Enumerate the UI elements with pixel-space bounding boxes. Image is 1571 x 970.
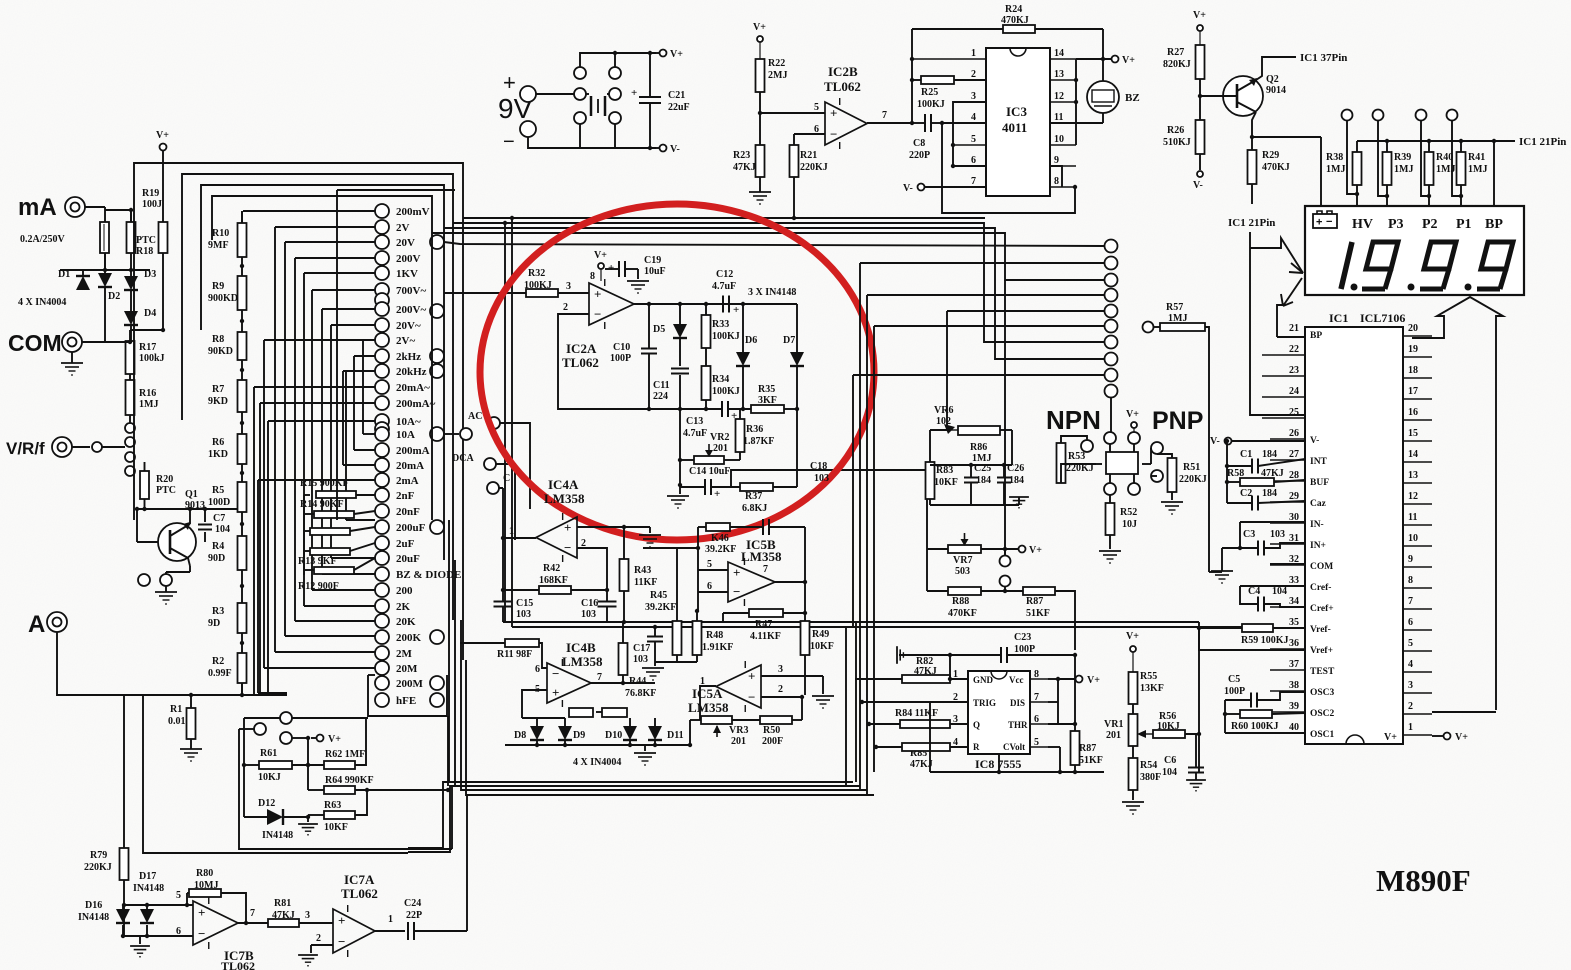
switch contact 2V: [375, 220, 389, 234]
wire bus top nest 1: [134, 163, 463, 660]
svg-text:COM: COM: [8, 330, 62, 356]
wire vertical bundle x860: [859, 263, 861, 790]
wire switch box: [337, 189, 455, 191]
svg-text:100KJ: 100KJ: [712, 331, 740, 342]
display digits 1.9.9.9: [1341, 242, 1352, 289]
svg-text:38: 38: [1289, 680, 1299, 691]
svg-text:C23: C23: [1014, 632, 1031, 643]
svg-text:200F: 200F: [762, 736, 783, 747]
switch contact 10A: [375, 427, 389, 441]
svg-text:1MJ: 1MJ: [1394, 164, 1413, 175]
svg-text:IC2A: IC2A: [566, 341, 597, 356]
junction IC3 pin1: [910, 57, 914, 61]
wire OSC bracket: [1224, 700, 1226, 733]
wire ladder backbone: [241, 211, 243, 223]
selector contact circles left column: [125, 423, 135, 433]
wire Q2 collector to IC1 37Pin: [1256, 57, 1296, 80]
svg-text:1KD: 1KD: [208, 449, 228, 460]
svg-text:AC: AC: [468, 411, 482, 422]
svg-text:V+: V+: [1193, 10, 1206, 21]
svg-text:−: −: [1326, 216, 1332, 228]
switch contact 200mV: [375, 204, 389, 218]
svg-text:5: 5: [707, 559, 712, 570]
svg-text:TL062: TL062: [824, 79, 861, 94]
svg-text:VR3: VR3: [729, 725, 748, 736]
svg-text:C12: C12: [716, 269, 733, 280]
wire range resistor left rail: [304, 494, 310, 496]
probe contact circles: [1342, 110, 1353, 121]
wire bottom rail y695: [66, 694, 287, 696]
svg-text:100J: 100J: [142, 199, 162, 210]
svg-text:OSC3: OSC3: [1310, 688, 1335, 698]
svg-text:R21: R21: [800, 150, 817, 161]
switch contact 20V second column: [430, 235, 444, 249]
svg-text:COM: COM: [1310, 562, 1333, 572]
svg-text:12: 12: [1054, 91, 1064, 102]
switch contact 2uF: [375, 536, 389, 550]
wire probe circle drops: [1347, 120, 1357, 194]
svg-text:IC1 21Pin: IC1 21Pin: [1519, 136, 1566, 148]
svg-text:LM358: LM358: [562, 654, 603, 669]
svg-text:51KF: 51KF: [1026, 608, 1050, 619]
svg-text:V-: V-: [1193, 180, 1203, 191]
svg-text:39.2KF: 39.2KF: [705, 544, 736, 555]
switch contact 2M: [375, 646, 389, 660]
svg-text:200V~: 200V~: [396, 304, 426, 316]
svg-text:D6: D6: [745, 335, 757, 346]
svg-text:OSC1: OSC1: [1310, 730, 1335, 740]
svg-text:1.91KF: 1.91KF: [702, 642, 733, 653]
power stub V+ R62: [317, 735, 324, 742]
svg-text:−: −: [338, 934, 345, 949]
switch contact 20mA: [375, 458, 389, 472]
svg-text:10KF: 10KF: [324, 822, 348, 833]
svg-text:37: 37: [1289, 659, 1299, 670]
switch contact 20nF: [375, 504, 389, 518]
wire bus top nest 2: [182, 174, 453, 620]
IC IC1 body: [1305, 327, 1403, 744]
svg-text:D17: D17: [139, 871, 156, 882]
switch contact 20K: [375, 614, 389, 628]
wire C contact to IC4A: [499, 487, 503, 489]
svg-text:200mV: 200mV: [396, 206, 430, 218]
svg-text:R47: R47: [755, 619, 772, 630]
switch contact 700V~: [375, 283, 389, 297]
wire bus y627 to R59: [512, 626, 1242, 628]
svg-text:IC7A: IC7A: [344, 872, 375, 887]
svg-text:−: −: [198, 926, 205, 941]
svg-text:HV: HV: [1352, 217, 1373, 232]
svg-text:BZ: BZ: [1125, 92, 1140, 104]
svg-text:34: 34: [1289, 596, 1299, 607]
wire diode rails D8-D11: [522, 717, 565, 719]
wire VR6 left rail: [930, 429, 947, 431]
svg-text:CVolt: CVolt: [1003, 742, 1025, 752]
svg-text:6: 6: [971, 155, 976, 166]
switch contact hFE second column: [430, 693, 444, 707]
switch contact 200uF: [375, 520, 389, 534]
svg-text:510KJ: 510KJ: [1163, 137, 1191, 148]
svg-text:IC1: IC1: [1329, 311, 1348, 325]
svg-text:V+: V+: [1029, 545, 1042, 556]
wire bus right y233: [432, 233, 1104, 280]
wire D16 D17 bottom rail: [122, 925, 124, 936]
svg-text:90D: 90D: [208, 553, 225, 564]
svg-text:4 X IN4004: 4 X IN4004: [18, 297, 66, 308]
svg-text:200K: 200K: [396, 632, 422, 644]
svg-text:C2: C2: [1240, 488, 1252, 499]
svg-text:4.11KF: 4.11KF: [750, 631, 781, 642]
svg-text:22P: 22P: [406, 910, 422, 921]
switch contact 200V~ second column: [430, 304, 444, 318]
svg-text:TL062: TL062: [341, 886, 378, 901]
svg-text:9: 9: [1054, 155, 1059, 166]
switch contact 200mA: [375, 443, 389, 457]
svg-text:R2: R2: [212, 656, 224, 667]
contact 10A aux: [460, 428, 472, 440]
svg-text:8: 8: [590, 271, 595, 282]
svg-text:BP: BP: [1485, 217, 1503, 232]
svg-text:184: 184: [976, 475, 991, 486]
svg-text:TL062: TL062: [562, 355, 599, 370]
wire 20V long line: [444, 242, 1104, 246]
svg-text:D9: D9: [573, 730, 585, 741]
svg-text:C7: C7: [213, 513, 225, 524]
IC IC3 4011 body: [986, 48, 1050, 196]
wire IC1 21pin feeder: [1250, 232, 1305, 415]
selector circle b: [254, 723, 266, 735]
wire switch loop x363: [363, 339, 375, 341]
svg-text:IN+: IN+: [1310, 541, 1326, 551]
svg-text:103: 103: [581, 609, 596, 620]
svg-text:D12: D12: [258, 798, 275, 809]
svg-text:76.8KF: 76.8KF: [625, 688, 656, 699]
wire battery top rail: [580, 53, 656, 67]
wire bus right y218: [463, 217, 985, 219]
svg-text:10: 10: [1054, 134, 1064, 145]
svg-text:R51: R51: [1183, 462, 1200, 473]
wire IC4A plus input: [577, 526, 624, 528]
svg-text:40: 40: [1289, 722, 1299, 733]
switch contact 200K second column: [430, 630, 444, 644]
switch contact 200: [375, 583, 389, 597]
svg-text:2: 2: [971, 69, 976, 80]
wire switch loop x331: [331, 324, 375, 326]
ground at IC4A plus: [639, 534, 661, 536]
svg-text:20kHz: 20kHz: [396, 366, 427, 378]
wire switch loop x346: [346, 370, 375, 372]
svg-text:−: −: [552, 666, 559, 681]
junction dots ladder: [240, 264, 244, 268]
svg-text:R41: R41: [1468, 152, 1485, 163]
svg-text:184: 184: [1262, 449, 1277, 460]
switch contact 2kHz second column: [430, 349, 444, 363]
svg-text:200mA: 200mA: [396, 445, 430, 457]
svg-text:C19: C19: [644, 255, 661, 266]
svg-text:11: 11: [1054, 112, 1063, 123]
terminal V/R/f jack: [52, 437, 72, 457]
wire IC3 bottom loop: [942, 123, 1075, 213]
svg-text:R29: R29: [1262, 150, 1279, 161]
svg-text:5: 5: [1408, 638, 1413, 649]
svg-text:200uF: 200uF: [396, 522, 426, 534]
svg-text:V+: V+: [1384, 732, 1397, 743]
svg-text:−: −: [503, 131, 515, 153]
svg-text:V+: V+: [670, 49, 683, 60]
svg-text:16: 16: [1408, 407, 1418, 418]
svg-text:3 X IN4148: 3 X IN4148: [748, 287, 796, 298]
svg-text:Q1: Q1: [185, 489, 198, 500]
svg-text:+: +: [594, 286, 601, 301]
svg-text:R79: R79: [90, 850, 107, 861]
wire R61 box outline: [243, 718, 245, 817]
svg-text:R34: R34: [712, 374, 729, 385]
wire riser x143 to bottom: [143, 695, 408, 853]
svg-text:LM358: LM358: [688, 700, 729, 715]
wire switch loop x295: [295, 257, 375, 259]
svg-text:V+: V+: [594, 250, 607, 261]
svg-text:C24: C24: [404, 898, 421, 909]
svg-text:Vref+: Vref+: [1310, 646, 1333, 656]
wire C17 R45 R48 bottom rail: [655, 661, 697, 663]
svg-text:C16: C16: [581, 598, 598, 609]
svg-text:V+: V+: [1126, 631, 1139, 642]
svg-text:+: +: [552, 685, 559, 700]
svg-text:R3: R3: [212, 606, 224, 617]
svg-text:R57: R57: [1166, 302, 1183, 313]
svg-text:+: +: [714, 488, 720, 500]
svg-text:11KF: 11KF: [634, 577, 657, 588]
svg-text:10A: 10A: [396, 429, 415, 441]
svg-text:1MJ: 1MJ: [1326, 164, 1345, 175]
svg-text:168KF: 168KF: [539, 575, 568, 586]
ground under R51: [1161, 501, 1183, 503]
svg-text:M890F: M890F: [1376, 863, 1471, 898]
svg-text:20V~: 20V~: [396, 320, 421, 332]
svg-text:R43: R43: [634, 565, 651, 576]
svg-text:Cref-: Cref-: [1310, 583, 1331, 593]
wire battery bottom rail: [528, 137, 656, 148]
svg-text:IC4A: IC4A: [548, 477, 579, 492]
svg-text:10KF: 10KF: [810, 641, 834, 652]
switch contact 2V~: [375, 333, 389, 347]
svg-text:hFE: hFE: [396, 695, 416, 707]
switch contact 2K: [375, 599, 389, 613]
svg-text:C21: C21: [668, 90, 685, 101]
svg-text:VR6: VR6: [934, 405, 953, 416]
svg-text:R26: R26: [1167, 125, 1184, 136]
wire Q1 collector rail: [137, 508, 242, 510]
ground under R54: [1122, 801, 1144, 803]
svg-text:+: +: [338, 913, 345, 928]
svg-text:104: 104: [1162, 767, 1177, 778]
svg-text:380F: 380F: [1140, 772, 1161, 783]
wire C24 riser: [466, 795, 468, 931]
wire diode rails: [60, 269, 150, 271]
svg-text:R8: R8: [212, 334, 224, 345]
svg-text:V/R/f: V/R/f: [6, 439, 45, 458]
svg-text:R62 1MF: R62 1MF: [325, 749, 365, 760]
svg-text:OSC2: OSC2: [1310, 709, 1335, 719]
svg-text:R60 100KJ: R60 100KJ: [1231, 721, 1279, 732]
wire IC3 pin3-pin6 bracket: [953, 102, 986, 166]
svg-text:10A~: 10A~: [396, 416, 421, 428]
svg-text:Vcc: Vcc: [1009, 675, 1024, 685]
wire C14 to right bus: [731, 470, 927, 543]
svg-text:V-: V-: [1210, 436, 1220, 447]
svg-text:R16: R16: [139, 388, 156, 399]
svg-text:VR1: VR1: [1104, 719, 1123, 730]
wire 2mA long loop: [258, 479, 375, 481]
switch contact 20kHz: [375, 364, 389, 378]
wire IC3 pin9 bracket: [1050, 166, 1062, 187]
ground IC7B input: [139, 936, 141, 944]
ground D12: [307, 817, 309, 822]
svg-text:23: 23: [1289, 365, 1299, 376]
svg-text:NPN: NPN: [1046, 405, 1101, 435]
svg-text:TRIG: TRIG: [973, 698, 996, 708]
wire bottom bus 1: [449, 520, 853, 782]
svg-text:100KJ: 100KJ: [712, 386, 740, 397]
svg-text:R55: R55: [1140, 671, 1157, 682]
wire switch loop x312: [312, 289, 375, 291]
svg-text:0.99F: 0.99F: [208, 668, 232, 679]
svg-text:22uF: 22uF: [668, 102, 690, 113]
svg-text:BUF: BUF: [1310, 478, 1329, 488]
svg-text:IN4148: IN4148: [78, 912, 109, 923]
switch contact 2nF: [375, 488, 389, 502]
svg-text:P2: P2: [1422, 217, 1438, 232]
svg-text:R64 990KF: R64 990KF: [325, 775, 374, 786]
svg-text:BZ & DIODE: BZ & DIODE: [396, 569, 461, 581]
wire IC8 pin6 THR: [1048, 723, 1075, 725]
svg-text:503: 503: [955, 566, 970, 577]
svg-text:C14 10uF: C14 10uF: [689, 466, 730, 477]
svg-text:R59 100KJ: R59 100KJ: [1241, 635, 1289, 646]
svg-text:2V~: 2V~: [396, 335, 415, 347]
svg-text:PNP: PNP: [1152, 407, 1203, 435]
svg-text:1: 1: [971, 48, 976, 59]
svg-text:VR2: VR2: [710, 432, 729, 443]
switch contact 20V: [375, 235, 389, 249]
svg-text:39.2KF: 39.2KF: [645, 602, 676, 613]
svg-text:0.01: 0.01: [168, 716, 186, 727]
svg-text:36: 36: [1289, 638, 1299, 649]
switch contact 200mA~: [375, 396, 389, 410]
switch contact 20V~: [375, 318, 389, 332]
svg-text:C13: C13: [686, 416, 703, 427]
svg-text:R81: R81: [274, 898, 291, 909]
svg-text:4.7uF: 4.7uF: [712, 281, 736, 292]
svg-text:IN4148: IN4148: [133, 883, 164, 894]
svg-text:17: 17: [1408, 386, 1418, 397]
switch contact 200M: [375, 676, 389, 690]
svg-text:2MJ: 2MJ: [768, 70, 787, 81]
wire switch loop x285: [285, 241, 375, 243]
wire IC8 bottom rail: [998, 754, 1000, 772]
svg-text:R54: R54: [1140, 760, 1157, 771]
svg-text:4: 4: [971, 112, 976, 123]
wire input to R32: [444, 292, 526, 294]
svg-text:R24: R24: [1005, 4, 1022, 15]
wire COM pin32: [1270, 563, 1305, 565]
svg-text:D4: D4: [144, 308, 156, 319]
svg-text:D7: D7: [783, 335, 795, 346]
wire V/R/f to contacts: [102, 446, 125, 448]
svg-text:220P: 220P: [909, 150, 930, 161]
wire IC2A output rail: [634, 303, 797, 305]
svg-text:103: 103: [814, 473, 829, 484]
svg-text:R37: R37: [745, 491, 762, 502]
wire IC3 pin13 link: [1075, 59, 1077, 80]
svg-text:13: 13: [1408, 470, 1418, 481]
terminal V- battery: [660, 145, 667, 152]
svg-text:12: 12: [1408, 491, 1418, 502]
svg-text:20M: 20M: [396, 663, 418, 675]
svg-text:6: 6: [1408, 617, 1413, 628]
svg-text:LM358: LM358: [741, 549, 782, 564]
svg-text:Cref+: Cref+: [1310, 604, 1334, 614]
terminal COM jack: [62, 332, 82, 352]
svg-text:9D: 9D: [208, 618, 220, 629]
switch contact 20kHz second column: [430, 364, 444, 378]
svg-text:C18: C18: [810, 461, 827, 472]
wire C15 C16 bottom rail: [503, 621, 624, 623]
svg-text:R88: R88: [952, 596, 969, 607]
wire C1 C2 rail: [1226, 441, 1228, 503]
wire IC8 pin2: [862, 701, 968, 703]
switch contact 20mA~: [375, 380, 389, 394]
svg-text:100KJ: 100KJ: [917, 99, 945, 110]
svg-text:3: 3: [566, 281, 571, 292]
svg-text:P3: P3: [1388, 217, 1404, 232]
svg-text:201: 201: [713, 443, 728, 454]
svg-text:R53: R53: [1068, 451, 1085, 462]
svg-text:R87: R87: [1026, 596, 1043, 607]
svg-text:7: 7: [882, 110, 887, 121]
svg-text:24: 24: [1289, 386, 1299, 397]
svg-text:20: 20: [1408, 323, 1418, 334]
battery connector: [574, 67, 586, 79]
svg-text:20nF: 20nF: [396, 506, 420, 518]
svg-text:100P: 100P: [1014, 644, 1035, 655]
wire COM to R17: [105, 341, 130, 343]
svg-text:+: +: [564, 520, 571, 535]
svg-text:R7: R7: [212, 384, 224, 395]
svg-text:+: +: [198, 905, 205, 920]
svg-text:D11: D11: [667, 730, 684, 741]
svg-text:20uF: 20uF: [396, 553, 420, 565]
svg-text:35: 35: [1289, 617, 1299, 628]
svg-text:21: 21: [1289, 323, 1299, 334]
svg-text:D10: D10: [605, 730, 622, 741]
wire IC8 pin7 DIS: [1048, 701, 1058, 703]
svg-text:R32: R32: [528, 268, 545, 279]
svg-text:33: 33: [1289, 575, 1299, 586]
wire switch loop x322: [322, 308, 375, 310]
svg-text:R: R: [973, 742, 980, 752]
svg-text:2kHz: 2kHz: [396, 351, 421, 363]
svg-text:V+: V+: [156, 130, 169, 141]
jumper links: [569, 708, 593, 717]
svg-text:7: 7: [250, 908, 255, 919]
svg-text:D5: D5: [653, 324, 665, 335]
svg-text:200M: 200M: [396, 678, 424, 690]
svg-text:−: −: [748, 689, 755, 704]
svg-text:10J: 10J: [1122, 519, 1137, 530]
svg-text:P1: P1: [1456, 217, 1472, 232]
svg-text:25: 25: [1289, 407, 1299, 418]
